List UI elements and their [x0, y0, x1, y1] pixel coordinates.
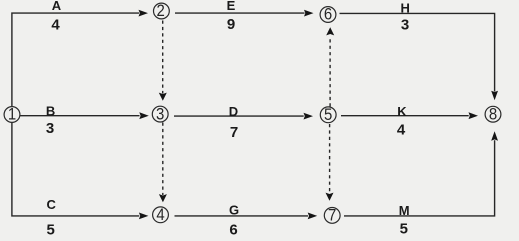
- svg-text:8: 8: [489, 106, 497, 124]
- svg-text:E: E: [227, 0, 236, 13]
- svg-text:9: 9: [227, 16, 235, 33]
- svg-text:3: 3: [401, 16, 409, 33]
- svg-text:K: K: [397, 104, 407, 119]
- svg-text:6: 6: [229, 222, 237, 239]
- svg-text:6: 6: [324, 6, 332, 24]
- svg-text:3: 3: [156, 105, 164, 123]
- svg-text:H: H: [401, 0, 410, 15]
- svg-text:5: 5: [324, 106, 332, 124]
- svg-text:G: G: [229, 202, 239, 217]
- svg-text:5: 5: [47, 222, 55, 239]
- svg-text:5: 5: [400, 220, 408, 237]
- svg-text:D: D: [229, 104, 238, 119]
- svg-text:C: C: [47, 197, 57, 212]
- svg-text:A: A: [52, 0, 62, 13]
- svg-text:M: M: [399, 203, 410, 218]
- svg-text:2: 2: [156, 2, 164, 20]
- svg-text:B: B: [46, 103, 55, 118]
- svg-text:3: 3: [46, 120, 54, 137]
- svg-text:4: 4: [51, 17, 60, 34]
- svg-text:7: 7: [230, 124, 238, 141]
- svg-text:4: 4: [156, 206, 164, 224]
- svg-text:7: 7: [328, 207, 336, 225]
- svg-text:1: 1: [8, 106, 16, 124]
- svg-text:4: 4: [397, 122, 406, 139]
